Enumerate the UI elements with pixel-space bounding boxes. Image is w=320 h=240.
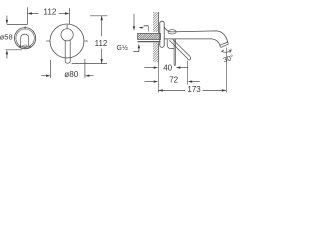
dim o80: left arrow <box>41 75 46 77</box>
knob outer circle (o58) <box>15 28 36 49</box>
dim 173: right arrow <box>222 89 227 91</box>
aerator end cut <box>220 42 229 47</box>
dim 112 right: top arrow <box>101 16 103 20</box>
small left arrow at body <box>142 27 144 29</box>
dim o58 top extension line <box>7 24 28 26</box>
lever stem <box>65 40 70 63</box>
dim o58 bottom extension line <box>6 49 22 51</box>
dim 72: right arrow <box>192 81 200 83</box>
escutcheon circle o80 <box>50 24 84 58</box>
small dash and tick above body <box>144 25 149 27</box>
dim 40: right arrow <box>180 67 188 69</box>
svg-text:ø58: ø58 <box>0 33 13 42</box>
lever side view diagonal <box>169 39 190 58</box>
hub cover curve below spout <box>167 39 174 48</box>
dim 112 top: right arrow <box>59 13 66 15</box>
wall face line lower, continues as dimension reference line <box>158 42 160 66</box>
knob top tick <box>24 26 26 29</box>
svg-text:72: 72 <box>169 75 178 84</box>
dim 112 right: dim line <box>101 16 103 64</box>
circle left tick <box>46 40 50 42</box>
knob bottom tick <box>24 47 26 49</box>
hub top tick <box>66 24 68 29</box>
svg-text:112: 112 <box>43 8 56 17</box>
wall hatch upper band <box>153 12 159 32</box>
svg-text:ø80: ø80 <box>64 70 79 79</box>
dim 112 right: bottom arrow <box>101 59 103 64</box>
dim 112 top: left extension line <box>26 7 28 24</box>
wall face line upper <box>158 12 160 34</box>
dim 173: dim line <box>158 89 226 91</box>
dim o58 bottom arrow (up) <box>6 54 8 59</box>
lever knob end <box>187 56 191 60</box>
svg-text:G½: G½ <box>117 44 128 52</box>
knob inner rim circle <box>16 29 34 47</box>
spout bottom edge <box>164 39 220 45</box>
handle hub circle <box>61 29 73 41</box>
valve body hatched bar <box>138 34 161 40</box>
dim 40: left arrow <box>144 67 153 69</box>
dim o80: right extension line <box>84 59 86 78</box>
dim 112 top: left arrow <box>32 13 39 15</box>
spout top edge with root flare <box>164 27 228 42</box>
outlet angle arrowheads <box>221 50 231 53</box>
dim 112 top: right extension line <box>69 8 71 24</box>
svg-text:40: 40 <box>163 63 172 72</box>
dim 112 right: bottom extension line <box>72 63 107 65</box>
water axis extension line <box>225 47 227 92</box>
outlet angle arc <box>221 49 231 53</box>
dim o80: right arrow <box>89 75 93 77</box>
wall hatch lower band <box>153 43 159 62</box>
dim 72: right extension line <box>187 61 189 85</box>
small down arrow above body <box>133 14 135 27</box>
svg-text:173: 173 <box>187 85 201 94</box>
escutcheon plate side view <box>160 21 164 47</box>
dim o80: left extension line <box>50 60 52 78</box>
knob stem tip ellipse <box>23 45 27 47</box>
lever stem U below spout <box>174 39 176 65</box>
valve body bottom flange band <box>138 41 161 43</box>
dim 173: left arrow <box>158 89 163 91</box>
svg-text:30°: 30° <box>222 53 235 64</box>
svg-text:112: 112 <box>95 39 108 48</box>
knob bell shape <box>21 34 29 46</box>
shared dimension extension line (wall face) <box>157 66 159 93</box>
circle right tick <box>84 40 88 42</box>
dim o58 top arrow (down) <box>6 16 8 22</box>
dim 112 right: top extension line <box>90 15 108 17</box>
knob bell feet <box>19 46 31 47</box>
small up arrow below body <box>133 48 139 52</box>
lever hub capsule at root <box>168 30 176 34</box>
dim 72: left arrow <box>144 81 153 83</box>
